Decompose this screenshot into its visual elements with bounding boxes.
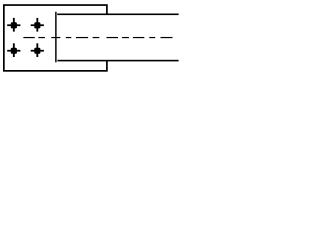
centerline dash 6	[93, 37, 100, 38]
hole marker cross 4 (bottom-right)	[31, 43, 44, 57]
centerline dash 8	[122, 37, 129, 38]
background	[0, 0, 183, 75]
centerline dash 5	[76, 37, 88, 38]
tube top edge	[57, 14, 178, 16]
tube bottom edge	[57, 60, 178, 62]
hole marker cross 3 (bottom-left)	[7, 43, 20, 57]
tube end line (vertical, at plate)	[55, 12, 56, 63]
centerline dash 9	[133, 37, 144, 38]
centerline dash 2	[38, 37, 45, 38]
hole marker cross 2 (top-right)	[31, 18, 44, 32]
centerline dash 11	[161, 37, 173, 38]
centerline dash 4	[66, 37, 72, 38]
centerline dash 1	[23, 37, 34, 38]
centerline dash 10	[149, 37, 155, 38]
tube body white fill (hides plate right edge behind tube)	[57, 14, 179, 60]
centerline dash 7	[107, 37, 119, 38]
plate outline (face view of mounting plate)	[4, 5, 107, 71]
hole marker cross 1 (top-left)	[7, 18, 20, 32]
centerline dash 3	[51, 37, 60, 38]
